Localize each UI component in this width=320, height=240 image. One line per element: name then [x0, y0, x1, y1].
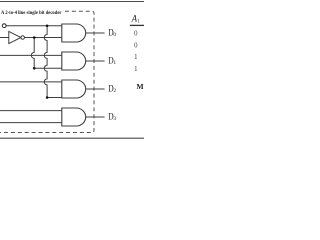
svg-text:0: 0: [113, 32, 116, 38]
svg-text:1: 1: [113, 60, 116, 66]
svg-text:2: 2: [113, 88, 116, 94]
svg-text:3: 3: [113, 116, 116, 122]
svg-text:M: M: [137, 82, 144, 91]
svg-text:1: 1: [134, 54, 137, 61]
svg-text:A 2-to-4 line single bit decod: A 2-to-4 line single bit decoder: [1, 10, 62, 16]
svg-text:1: 1: [134, 66, 137, 73]
svg-text:0: 0: [134, 30, 138, 37]
svg-text:0: 0: [134, 42, 138, 49]
